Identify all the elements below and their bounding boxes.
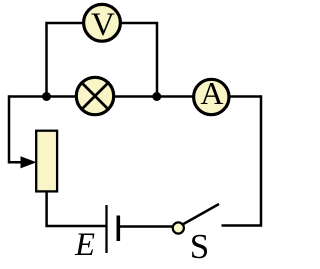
wire: rheostat bottom lead + bottom horizontal to battery	[45, 192, 106, 226]
rheostat body	[36, 131, 57, 192]
svg-text:A: A	[200, 75, 223, 111]
lamp circle	[76, 77, 113, 114]
lamp cross	[82, 83, 108, 109]
battery short plate (negative)	[117, 216, 121, 242]
ammeter A circle	[194, 79, 229, 114]
voltmeter V circle	[84, 4, 121, 41]
wire: right vertical + bottom-right horizontal to switch contact	[222, 95, 262, 225]
junction node right	[152, 92, 161, 101]
wire: top-left horizontal + left vertical of voltmeter branch	[47, 22, 103, 97]
svg-text:S: S	[190, 227, 209, 266]
wire: battery to switch pivot	[118, 225, 172, 228]
junction node left	[42, 92, 51, 101]
wire: main middle horizontal rail	[9, 95, 261, 98]
switch pivot circle	[173, 222, 184, 233]
wire: voltmeter right horizontal + right vertical down to junction	[102, 22, 157, 97]
wire: left vertical down to rheostat wiper	[9, 95, 22, 162]
switch blade	[179, 204, 219, 227]
svg-text:V: V	[91, 7, 115, 43]
battery long plate (positive)	[105, 205, 107, 253]
arrowhead of rheostat wiper	[21, 156, 37, 168]
svg-text:E: E	[74, 227, 95, 263]
